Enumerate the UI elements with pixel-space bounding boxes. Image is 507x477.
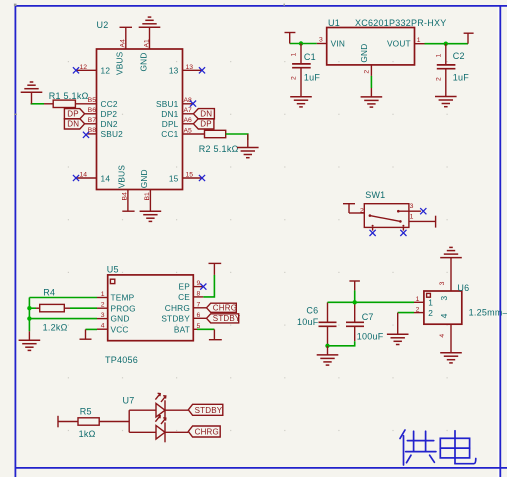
svg-text:3: 3 bbox=[410, 203, 414, 210]
svg-text:STDBY: STDBY bbox=[195, 406, 223, 415]
svg-text:4: 4 bbox=[439, 334, 446, 338]
svg-text:15: 15 bbox=[186, 172, 194, 179]
svg-text:A5: A5 bbox=[184, 127, 193, 134]
capacitor C7 bbox=[346, 302, 384, 341]
resistor R4 bbox=[40, 288, 68, 333]
svg-text:SBU2: SBU2 bbox=[101, 129, 124, 139]
ground (right of R2) bbox=[237, 134, 259, 158]
U2 pin B7 DN2 bbox=[85, 117, 118, 129]
ground (below C6) bbox=[317, 346, 339, 365]
svg-text:15: 15 bbox=[169, 173, 179, 183]
SW1 mounting pin 4 bbox=[372, 227, 374, 230]
svg-text:6: 6 bbox=[197, 312, 201, 319]
U6 pin 1 bbox=[414, 296, 424, 303]
svg-text:100uF: 100uF bbox=[357, 332, 384, 342]
U6 pin 4 (bottom) bbox=[439, 324, 451, 353]
svg-text:VOUT: VOUT bbox=[387, 39, 411, 49]
U2 pin B5 CC2 bbox=[75, 97, 117, 109]
no-connect pin 12 bbox=[73, 67, 79, 73]
svg-text:2: 2 bbox=[360, 208, 364, 215]
power flag VBUS (top of U2) bbox=[120, 26, 133, 28]
connector U6 bbox=[424, 283, 507, 324]
U2 pin B6 DP2 bbox=[85, 107, 118, 119]
U5 pin 6 STDBY bbox=[193, 312, 206, 319]
power bar (right of SW1) bbox=[435, 216, 437, 228]
U5 pin 9 EP bbox=[193, 280, 203, 287]
ground (bottom of U2) bbox=[140, 211, 162, 221]
svg-text:EP: EP bbox=[179, 282, 191, 292]
ground (below U6 pin 2) bbox=[387, 313, 409, 345]
U2 pin 12 (shield) bbox=[77, 64, 111, 76]
power flag (right of U1) bbox=[464, 33, 474, 44]
svg-text:1: 1 bbox=[435, 54, 442, 58]
svg-text:14: 14 bbox=[80, 172, 88, 179]
svg-text:SW1: SW1 bbox=[365, 190, 385, 200]
junction VIN/C1 bbox=[299, 41, 303, 45]
R5 left lead bbox=[58, 421, 78, 423]
no-connect SW1 pin 4 bbox=[370, 230, 376, 236]
svg-text:VIN: VIN bbox=[331, 39, 345, 49]
svg-text:4: 4 bbox=[439, 313, 449, 318]
no-connect pin 14 bbox=[73, 175, 79, 181]
svg-text:13: 13 bbox=[186, 64, 194, 71]
junction C6/ground bbox=[325, 344, 329, 348]
power bar (below VCC) bbox=[80, 329, 92, 339]
U2 pin B4 VBUS (bottom) bbox=[117, 165, 129, 212]
svg-text:R2 5.1kΩ: R2 5.1kΩ bbox=[199, 144, 239, 154]
U5 pin 2 PROG bbox=[97, 302, 108, 309]
svg-text:CC2: CC2 bbox=[101, 99, 118, 109]
svg-text:8: 8 bbox=[197, 290, 201, 297]
svg-text:GND: GND bbox=[138, 52, 148, 71]
U2 pin 13 (shield) bbox=[169, 64, 203, 76]
global label CHRG (U5) bbox=[207, 303, 238, 312]
U5 pin 7 CHRG bbox=[193, 301, 206, 308]
svg-text:10uF: 10uF bbox=[297, 317, 319, 327]
LED D2 (CHRG) bbox=[129, 415, 188, 442]
svg-text:TP4056: TP4056 bbox=[105, 355, 138, 365]
U1 pin 1 VOUT bbox=[415, 37, 425, 44]
svg-text:4: 4 bbox=[101, 323, 105, 330]
svg-text:DP: DP bbox=[200, 120, 212, 129]
power flag (left of U1) bbox=[285, 33, 296, 44]
svg-text:R1 5.1kΩ: R1 5.1kΩ bbox=[49, 91, 89, 101]
wire VCC row bbox=[86, 328, 98, 330]
LED D1 (STDBY) bbox=[129, 393, 188, 420]
no-connect EP bbox=[200, 284, 206, 290]
svg-text:7: 7 bbox=[197, 301, 201, 308]
svg-text:1: 1 bbox=[101, 291, 105, 298]
svg-text:B7: B7 bbox=[88, 117, 97, 124]
svg-text:CC1: CC1 bbox=[161, 129, 178, 139]
ground (top of U2, inverted) bbox=[139, 17, 161, 27]
U2 pin B1 GND (bottom) bbox=[139, 169, 151, 211]
global label STDBY (U5) bbox=[207, 314, 241, 323]
wire U6 pin 2 to ground bbox=[398, 312, 414, 314]
svg-text:1: 1 bbox=[416, 296, 420, 303]
svg-text:2: 2 bbox=[428, 308, 433, 318]
svg-text:1: 1 bbox=[410, 214, 414, 221]
svg-text:U6: U6 bbox=[457, 283, 469, 293]
R5 right lead to split bbox=[99, 421, 129, 423]
power flag (above CE) bbox=[209, 263, 222, 275]
svg-text:A6: A6 bbox=[184, 117, 193, 124]
U2 pin A6 DPL bbox=[162, 117, 194, 129]
svg-text:CHRG: CHRG bbox=[195, 428, 219, 437]
svg-text:U2: U2 bbox=[97, 20, 109, 30]
power flag VBUS (bottom of U2) bbox=[122, 210, 134, 212]
ground (below U1) bbox=[361, 88, 383, 107]
svg-text:2: 2 bbox=[435, 77, 442, 81]
svg-text:B4: B4 bbox=[122, 192, 129, 201]
U5 pin 1 TEMP bbox=[97, 291, 108, 298]
junction R4/PROG bbox=[27, 306, 31, 310]
svg-text:9: 9 bbox=[197, 280, 201, 287]
svg-text:1uF: 1uF bbox=[304, 72, 321, 82]
switch SW1 bbox=[364, 190, 409, 228]
U5 pin 3 GND bbox=[97, 312, 108, 319]
U5 pin 5 BAT bbox=[193, 323, 200, 330]
global label CHRG (U7) bbox=[188, 426, 220, 437]
U2 pin A8 SBU1 bbox=[156, 97, 192, 109]
svg-text:B5: B5 bbox=[88, 97, 97, 104]
svg-text:SBU1: SBU1 bbox=[156, 99, 179, 109]
resistor R1 bbox=[49, 91, 89, 108]
U6 pin 2 bbox=[414, 306, 424, 313]
wire C6-C7 bottom bbox=[328, 341, 355, 346]
svg-text:VBUS: VBUS bbox=[117, 165, 127, 189]
wire VIN bbox=[290, 43, 317, 45]
svg-text:VBUS: VBUS bbox=[115, 51, 125, 75]
svg-text:1: 1 bbox=[291, 53, 298, 57]
svg-text:U1: U1 bbox=[328, 18, 340, 28]
svg-text:3: 3 bbox=[101, 312, 105, 319]
svg-text:A7: A7 bbox=[184, 107, 193, 114]
svg-text:3: 3 bbox=[439, 281, 446, 285]
regulator U1 bbox=[327, 18, 447, 65]
svg-text:12: 12 bbox=[101, 66, 111, 76]
U2 pin A4 VBUS (top) bbox=[115, 27, 127, 75]
wire GND row bbox=[29, 318, 97, 320]
svg-text:R4: R4 bbox=[43, 288, 55, 298]
svg-text:14: 14 bbox=[101, 173, 111, 183]
svg-text:GND: GND bbox=[111, 314, 130, 324]
svg-text:BAT: BAT bbox=[174, 324, 190, 334]
global label DN (left) bbox=[64, 119, 84, 129]
svg-text:STDBY: STDBY bbox=[161, 313, 190, 323]
svg-text:CHRG: CHRG bbox=[213, 303, 237, 312]
svg-text:1kΩ: 1kΩ bbox=[79, 429, 96, 439]
wire left bus vertical bbox=[28, 298, 30, 332]
svg-text:2: 2 bbox=[291, 76, 298, 80]
svg-text:B6: B6 bbox=[88, 107, 97, 114]
U2 pin 15 (shield) bbox=[169, 172, 203, 184]
svg-text:CE: CE bbox=[178, 292, 190, 302]
svg-text:GND: GND bbox=[139, 169, 149, 188]
wire PROG row bbox=[29, 307, 97, 309]
ground (below U6) bbox=[440, 353, 462, 363]
wire power to node bbox=[354, 290, 356, 302]
power flag (above C7) bbox=[349, 281, 360, 290]
resistor R2 bbox=[199, 130, 239, 154]
svg-text:3: 3 bbox=[319, 37, 323, 44]
no-connect pin 15 bbox=[199, 175, 205, 181]
wire R2 to ground bbox=[226, 134, 248, 140]
U1 pin 3 VIN bbox=[317, 37, 327, 44]
global label DP (left) bbox=[64, 109, 84, 119]
svg-text:DN1: DN1 bbox=[161, 109, 178, 119]
U1 pin 2 GND bbox=[364, 65, 372, 76]
svg-text:2: 2 bbox=[101, 302, 105, 309]
global label DP (right) bbox=[193, 119, 214, 129]
svg-text:DN: DN bbox=[67, 120, 79, 129]
global label DN (right) bbox=[193, 109, 214, 119]
wire TEMP row bbox=[29, 297, 97, 299]
no-connect SBU2 bbox=[83, 132, 89, 138]
U5 pin 8 CE bbox=[193, 290, 203, 297]
no-connect pin 13 bbox=[199, 67, 205, 73]
svg-text:3: 3 bbox=[439, 296, 449, 301]
svg-text:1: 1 bbox=[417, 37, 421, 44]
capacitor C1 bbox=[291, 44, 321, 97]
svg-text:2: 2 bbox=[364, 70, 371, 74]
svg-text:1.2kΩ: 1.2kΩ bbox=[43, 323, 68, 333]
svg-text:DN2: DN2 bbox=[101, 119, 118, 129]
no-connect SW1 pin 5 bbox=[400, 230, 406, 236]
capacitor C2 bbox=[435, 44, 469, 97]
power flag (left of SW1) bbox=[343, 204, 355, 213]
ground (below C1) bbox=[290, 97, 312, 107]
svg-text:2: 2 bbox=[416, 306, 420, 313]
svg-text:12: 12 bbox=[80, 64, 88, 71]
title 供电 (hand-drawn strokes) bbox=[400, 430, 476, 465]
wire VOUT bbox=[425, 43, 469, 45]
capacitor C6 bbox=[297, 302, 337, 346]
svg-text:U7: U7 bbox=[123, 395, 135, 405]
U2 pin A7 DN1 bbox=[161, 107, 193, 119]
ground (below C2) bbox=[435, 97, 457, 107]
svg-text:13: 13 bbox=[169, 66, 179, 76]
svg-text:C7: C7 bbox=[362, 312, 374, 322]
svg-text:C2: C2 bbox=[453, 51, 465, 61]
svg-text:PROG: PROG bbox=[111, 303, 136, 313]
svg-text:R5: R5 bbox=[80, 406, 92, 416]
svg-text:VCC: VCC bbox=[111, 324, 129, 334]
svg-text:DP: DP bbox=[67, 110, 79, 119]
no-connect SW1 pin 3 bbox=[420, 208, 426, 214]
U6 pin 3 (top) bbox=[439, 258, 451, 291]
power bar (below BAT) bbox=[209, 329, 222, 339]
ground (below R4 bus) bbox=[19, 331, 41, 350]
svg-text:GND: GND bbox=[359, 44, 369, 63]
SW1 pin 2 (common) bbox=[349, 208, 364, 215]
wire BAT to power bbox=[197, 328, 214, 330]
wire CE to power bbox=[203, 275, 214, 297]
connector U2 body bbox=[97, 20, 183, 190]
svg-text:STDBY: STDBY bbox=[213, 314, 241, 323]
U2 pin B8 SBU2 bbox=[87, 127, 124, 139]
no-connect SBU1 bbox=[190, 101, 196, 107]
junction C7/node bbox=[353, 300, 357, 304]
charger U5 TP4056 bbox=[105, 265, 193, 365]
SW1 pin 3 bbox=[398, 203, 421, 211]
svg-text:1.25mm–: 1.25mm– bbox=[469, 308, 507, 318]
SW1 pin 1 bbox=[409, 214, 436, 222]
svg-text:U5: U5 bbox=[107, 265, 119, 275]
U2 pin 14 (shield) bbox=[77, 172, 111, 184]
svg-text:DPL: DPL bbox=[162, 119, 179, 129]
svg-text:C1: C1 bbox=[304, 52, 316, 62]
svg-text:CHRG: CHRG bbox=[165, 303, 190, 313]
svg-text:B1: B1 bbox=[144, 192, 151, 201]
ground (left of R1, inverted) bbox=[21, 82, 43, 104]
wire R1 to ground bbox=[31, 103, 44, 105]
SW1 mounting pin 5 bbox=[402, 227, 404, 230]
R1 lead bbox=[44, 103, 53, 105]
svg-text:1: 1 bbox=[428, 298, 433, 308]
wire U1 GND bbox=[370, 76, 372, 88]
U2 pin A5 CC1 bbox=[161, 127, 204, 139]
global label STDBY (U7) bbox=[188, 404, 223, 415]
svg-text:C6: C6 bbox=[306, 306, 318, 316]
svg-text:DN: DN bbox=[200, 110, 212, 119]
U2 pin A1 GND (top) bbox=[138, 27, 150, 71]
svg-text:B8: B8 bbox=[88, 127, 97, 134]
resistor R5 bbox=[78, 406, 99, 439]
svg-text:TEMP: TEMP bbox=[111, 293, 135, 303]
anode split vertical bbox=[128, 410, 130, 432]
wire node to U6 pin 1 bbox=[328, 301, 415, 303]
svg-text:A1: A1 bbox=[143, 39, 150, 48]
U5 pin 4 VCC bbox=[97, 323, 108, 330]
svg-text:DP2: DP2 bbox=[101, 109, 118, 119]
power bar (left of R5) bbox=[57, 416, 59, 428]
svg-text:1uF: 1uF bbox=[453, 72, 470, 82]
svg-text:A4: A4 bbox=[120, 39, 127, 48]
ground (above U6, inverted) bbox=[440, 247, 462, 257]
junction VOUT/C2 bbox=[444, 42, 448, 46]
junction GND row bbox=[27, 316, 31, 320]
svg-text:XC6201P332PR-HXY: XC6201P332PR-HXY bbox=[355, 18, 447, 28]
